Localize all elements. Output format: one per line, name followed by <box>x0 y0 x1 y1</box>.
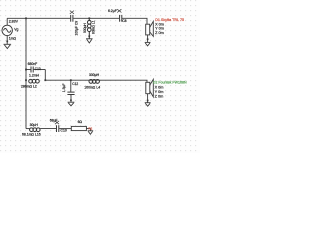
node B junction <box>88 17 90 19</box>
svg-text:Y 0m: Y 0m <box>155 90 164 94</box>
svg-text:Z 0m: Z 0m <box>155 95 164 99</box>
svg-text:80mΩ L1: 80mΩ L1 <box>92 20 96 34</box>
svg-text:D2 Fountek FW168N: D2 Fountek FW168N <box>153 80 187 84</box>
svg-text:C10: C10 <box>61 129 67 133</box>
wire L16 to C10 <box>40 128 56 130</box>
svg-text:R2: R2 <box>89 126 93 130</box>
svg-text:C12: C12 <box>72 82 78 86</box>
ground <box>88 131 94 135</box>
ground <box>4 44 12 48</box>
node source ground dot <box>6 41 8 43</box>
svg-text:X 0m: X 0m <box>155 86 164 90</box>
wire source top stub <box>6 18 8 25</box>
capacitor C13 <box>31 67 33 73</box>
ground <box>86 39 93 43</box>
speaker D1 <box>146 21 154 42</box>
node D1 ground dot <box>147 38 149 40</box>
wire source bottom stub <box>6 36 8 45</box>
svg-text:100µF C9: 100µF C9 <box>75 21 79 36</box>
svg-text:2.83V: 2.83V <box>9 20 19 24</box>
node C junction <box>25 69 27 71</box>
svg-text:Z 0m: Z 0m <box>155 31 164 35</box>
wire C13 branch <box>26 69 31 71</box>
svg-text:1.5µF: 1.5µF <box>62 83 66 92</box>
capacitor C9 <box>71 15 73 22</box>
polarity mark C10 <box>55 121 59 124</box>
capacitor C12 <box>67 80 74 102</box>
svg-text:C8: C8 <box>122 19 126 23</box>
node D2 ground dot <box>147 100 149 102</box>
capacitor C8 <box>120 15 122 22</box>
inductor L2 <box>29 79 40 83</box>
svg-text:500µH: 500µH <box>83 23 87 33</box>
wire row2 <box>45 80 147 82</box>
inductor L4 <box>89 80 99 84</box>
wire C13 to right rail <box>34 69 46 71</box>
node L1 ground dot <box>88 35 90 37</box>
node D junction <box>25 79 27 81</box>
wire C9 to C8 <box>73 17 119 19</box>
capacitor C10 <box>57 125 59 132</box>
wire trunk vertical <box>25 18 27 128</box>
svg-text:68.1mΩ L16: 68.1mΩ L16 <box>22 132 41 136</box>
wire top row to C9 <box>7 17 70 19</box>
wire R2 to ground <box>86 129 90 131</box>
polarity mark C8 <box>117 9 121 12</box>
node E junction <box>44 79 46 81</box>
polarity mark C9 <box>70 11 74 14</box>
node F junction <box>70 79 72 81</box>
node C12 ground dot <box>70 99 72 101</box>
svg-text:680nF: 680nF <box>28 62 38 66</box>
wire C10 to R2 <box>59 128 71 130</box>
svg-text:C13: C13 <box>35 67 41 71</box>
svg-text:1mΩ: 1mΩ <box>9 37 17 41</box>
svg-text:160mΩ L4: 160mΩ L4 <box>84 85 100 89</box>
svg-text:6.2µF: 6.2µF <box>108 9 117 13</box>
svg-text:Y 0m: Y 0m <box>155 27 164 31</box>
inductor L1 <box>87 18 91 38</box>
svg-text:6Ω: 6Ω <box>78 120 83 124</box>
wire block right rail <box>44 70 46 81</box>
voltage source Vg <box>2 25 12 35</box>
svg-text:68µF: 68µF <box>50 119 58 123</box>
resistor R2 <box>71 126 86 130</box>
wire row3 <box>26 128 30 130</box>
svg-text:330µH: 330µH <box>89 73 100 77</box>
ground <box>68 102 75 106</box>
wire C8 to D1 corner <box>122 18 147 24</box>
inductor L16 <box>30 128 41 132</box>
svg-text:Vg: Vg <box>14 28 18 32</box>
speaker D2 <box>146 79 154 102</box>
svg-text:30µH: 30µH <box>30 123 39 127</box>
svg-text:280mΩ L2: 280mΩ L2 <box>21 85 37 89</box>
ground <box>145 42 151 46</box>
node A junction <box>25 17 27 19</box>
svg-text:1.2mH: 1.2mH <box>29 73 40 77</box>
ground <box>145 103 151 107</box>
